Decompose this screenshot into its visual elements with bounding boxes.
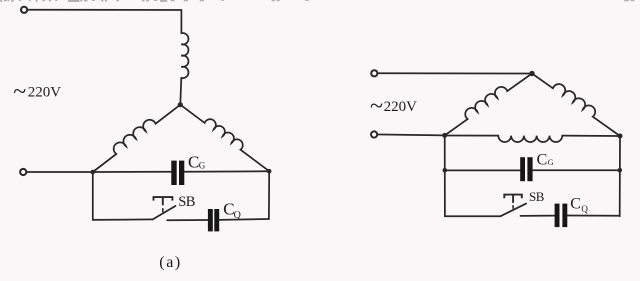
wire switch SB to capacitor CQ (right circuit)	[521, 215, 555, 217]
wire capacitor CG right plate to node B	[184, 170, 269, 172]
node E (right circuit, CG branch left junction)	[443, 168, 448, 173]
wire from terminal 1 to corner above main winding	[27, 9, 181, 11]
wire capacitor CQ to bottom-right corner (right circuit)	[567, 215, 619, 217]
svg-text:~: ~	[370, 93, 383, 119]
wire right side of bottom loop up to node B	[268, 171, 270, 219]
wire main winding bottom to star point	[180, 78, 181, 105]
svg-text:G: G	[199, 161, 206, 171]
svg-text:C: C	[188, 153, 199, 172]
wire capacitor CQ to bottom right corner	[219, 218, 269, 221]
svg-text:C: C	[570, 196, 581, 213]
wire corner down to main winding top	[180, 10, 182, 33]
node D (right circuit, delta bottom-right corner)	[618, 134, 623, 139]
winding L3 on right diagonal (left circuit)	[180, 105, 269, 172]
winding W1 on left side of delta (right circuit)	[445, 74, 532, 136]
node apex (right circuit, delta top corner)	[529, 71, 534, 76]
wire terminal 4 to node C	[377, 134, 444, 137]
wire capacitor CG to node F (right circuit)	[533, 169, 620, 171]
wire node A to capacitor CG left plate	[93, 171, 172, 173]
svg-text:G: G	[548, 158, 554, 167]
svg-text:(a): (a)	[159, 254, 182, 271]
cut-off text remnants along top edge	[0, 0, 635, 2]
svg-text:220V: 220V	[28, 85, 62, 101]
node C (right circuit, delta bottom-left corner)	[442, 133, 447, 138]
node star point (left circuit junction)	[178, 102, 183, 107]
capacitor CG plates (left circuit)	[171, 161, 184, 185]
main winding U1 (vertical inductor, left circuit)	[181, 33, 188, 78]
terminal 1 (left circuit, top supply terminal)	[21, 7, 27, 13]
svg-text:SB: SB	[529, 189, 545, 204]
svg-text:SB: SB	[178, 194, 195, 210]
wire node D down to bottom-right of parallel branch	[619, 136, 621, 216]
svg-text:C: C	[537, 152, 548, 169]
terminal 3 (right circuit, top supply terminal)	[371, 70, 377, 76]
switch SB push-button actuator (left circuit)	[154, 197, 173, 205]
wire terminal 3 to triangle apex	[378, 72, 532, 74]
wire node A down left side of bottom loop	[92, 172, 94, 220]
switch SB actuator dashed link (right circuit)	[512, 205, 514, 209]
capacitor CQ plates (left circuit)	[208, 209, 219, 231]
capacitor CQ plates (right circuit)	[555, 204, 568, 228]
switch SB blade (right circuit)	[501, 204, 526, 217]
switch SB blade (left circuit)	[153, 206, 176, 219]
winding L2 on left diagonal (left circuit)	[93, 105, 181, 172]
svg-text:Q: Q	[581, 204, 588, 214]
wire bottom left to switch SB	[93, 218, 153, 221]
wire switch SB to capacitor CQ (left circuit)	[167, 219, 208, 221]
svg-text:~: ~	[13, 79, 26, 105]
node B (left circuit, right junction)	[267, 169, 272, 174]
winding W3 on bottom side of delta (right circuit)	[498, 136, 562, 142]
wire terminal 2 to node A	[27, 171, 93, 173]
winding W2 on right side of delta (right circuit)	[532, 74, 620, 137]
wire node C down to bottom-left of parallel branch	[444, 135, 446, 216]
capacitor CG plates (right circuit)	[520, 157, 532, 181]
node A (left circuit, left junction)	[91, 170, 96, 175]
node F (right circuit, CG branch right junction)	[618, 168, 623, 173]
switch SB actuator dashed link (left circuit)	[162, 208, 164, 212]
wire delta bottom-right lead	[562, 135, 620, 137]
wire delta bottom-left lead	[445, 135, 499, 137]
wire node E to capacitor CG (right circuit)	[445, 169, 520, 171]
terminal 4 (right circuit, bottom supply terminal)	[371, 131, 377, 137]
wire bottom-left to switch SB (right circuit)	[445, 215, 501, 217]
switch SB push-button actuator (right circuit)	[504, 195, 522, 203]
terminal 2 (left circuit, bottom supply terminal)	[20, 169, 26, 175]
svg-text:220V: 220V	[384, 99, 418, 115]
